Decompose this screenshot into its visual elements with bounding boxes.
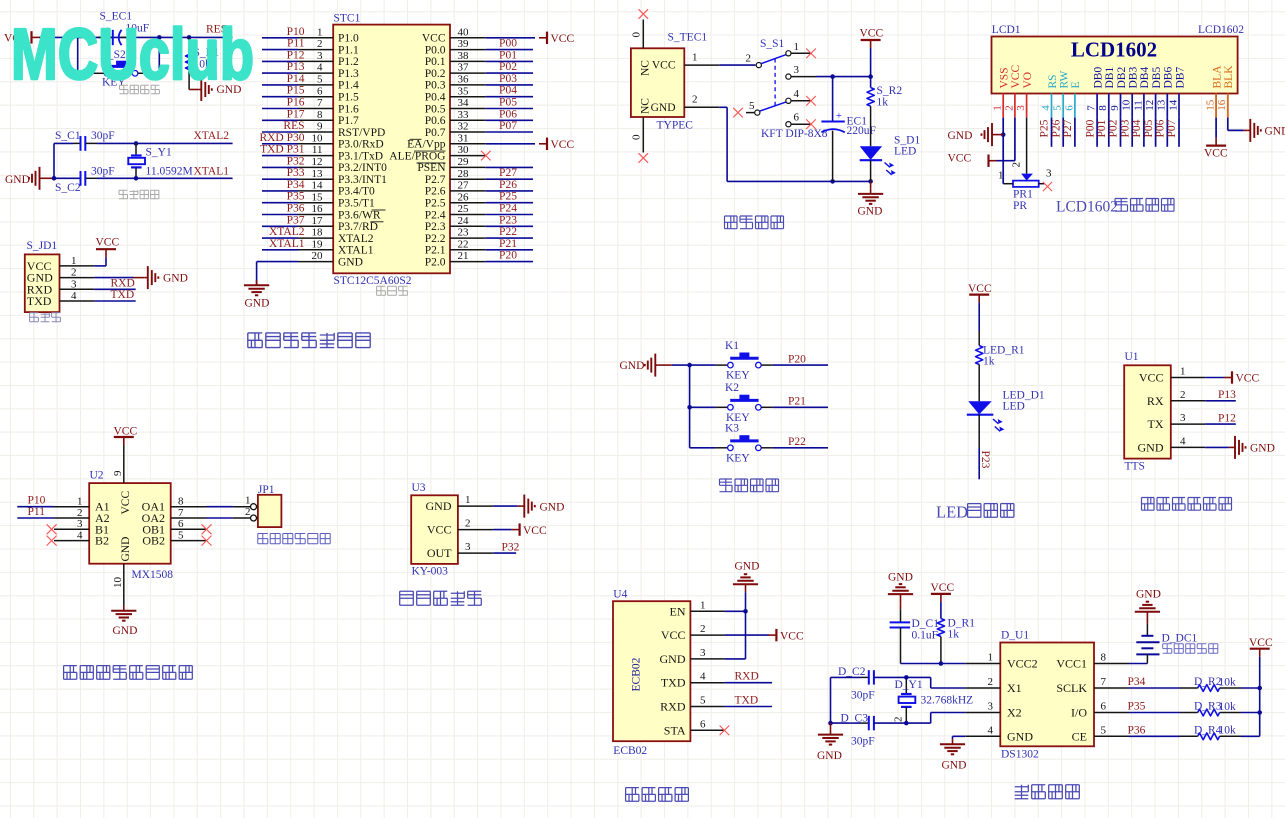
push button K3 KEY — [716, 423, 773, 465]
junction crystal bottom — [134, 176, 139, 181]
U2 pin 2 (A2) — [54, 507, 110, 525]
resistor S_R1 10k — [186, 37, 193, 89]
svg-text:BLA: BLA — [1211, 65, 1223, 89]
svg-text:7: 7 — [1101, 676, 1107, 688]
U3 pin 1 (GND) — [426, 494, 494, 513]
svg-text:VO: VO — [1022, 72, 1034, 89]
svg-text:VCC: VCC — [1236, 373, 1260, 385]
svg-text:P20: P20 — [788, 353, 806, 365]
U2 pin 1 (A1) — [54, 496, 110, 514]
junction VSS/GND — [1001, 132, 1006, 137]
svg-text:VCC: VCC — [1249, 637, 1273, 649]
svg-text:2: 2 — [988, 676, 994, 688]
no-connect X U2 pin5 — [202, 536, 212, 546]
caption 电源电路 — [725, 216, 738, 229]
IC LCD1 LCD1602 body — [992, 24, 1245, 93]
wire U2 pin7 to JP1 pin2 — [207, 517, 233, 519]
svg-text:0.1uF: 0.1uF — [912, 630, 939, 642]
wire/net label TXD (pin5) — [724, 695, 772, 707]
wire/net label P04 — [1131, 118, 1144, 147]
power VCC (D_R1) — [931, 582, 955, 602]
LCD1 pin 12 stub — [1144, 94, 1156, 118]
svg-text:GND: GND — [660, 652, 686, 666]
wire gnd bus to buttons — [672, 365, 716, 448]
svg-text:10k: 10k — [1219, 701, 1237, 713]
svg-text:36: 36 — [458, 74, 470, 86]
caption 直流电机插座 — [258, 534, 268, 544]
wire U3 pin1 to GND — [493, 495, 564, 518]
wire to VCC2 pin — [901, 663, 966, 665]
resistor D_R3 10k — [1180, 701, 1260, 716]
svg-text:GND: GND — [163, 273, 188, 285]
svg-text:2: 2 — [746, 52, 752, 64]
svg-text:2: 2 — [77, 507, 83, 519]
LCD1 pin 15 stub — [1205, 94, 1217, 118]
svg-text:2: 2 — [692, 94, 698, 106]
U2 pin 9 (VCC top) — [112, 445, 124, 483]
svg-text:D_U1: D_U1 — [1001, 630, 1029, 642]
wire/net label P25 — [1039, 118, 1052, 147]
ground (bluetooth) — [733, 561, 760, 593]
svg-text:VCC: VCC — [860, 28, 884, 40]
U4 pin 3 (GND) — [660, 647, 725, 666]
capacitor D_C3 30pF — [831, 716, 907, 730]
LCD1 pin 2 stub — [1003, 94, 1015, 118]
STC1 pin 27 (P2.6) — [425, 180, 486, 198]
svg-text:P00: P00 — [1084, 119, 1096, 137]
capacitor S_C2 30pF — [54, 171, 97, 186]
svg-text:LED: LED — [936, 503, 968, 522]
svg-text:P24: P24 — [499, 203, 517, 215]
svg-text:2: 2 — [893, 717, 905, 723]
svg-text:D_C2: D_C2 — [838, 666, 866, 678]
wire X1 — [906, 677, 965, 688]
svg-text:GND: GND — [1138, 440, 1164, 454]
svg-text:26: 26 — [458, 191, 470, 203]
svg-text:D_C3: D_C3 — [841, 713, 869, 725]
svg-text:1: 1 — [692, 52, 698, 64]
svg-text:RES: RES — [283, 120, 304, 132]
ground (backlight) — [1244, 119, 1285, 142]
STC1 pin 6 (P1.5) — [298, 85, 359, 103]
wire/net label P10 — [17, 495, 54, 507]
svg-text:3: 3 — [465, 541, 471, 553]
wire/net label P07 — [486, 120, 533, 132]
svg-text:40: 40 — [458, 26, 470, 38]
S_JD1 pin 2 (GND) — [27, 267, 95, 285]
svg-text:TYPEC: TYPEC — [657, 120, 694, 132]
STC1 pin 31 (EA/Vpp) — [407, 132, 486, 150]
svg-text:XTAL1: XTAL1 — [194, 166, 230, 178]
wire/net label P26 — [486, 179, 533, 191]
svg-text:P21: P21 — [788, 396, 806, 408]
svg-text:9: 9 — [112, 470, 124, 476]
svg-text:LCD1602: LCD1602 — [1056, 199, 1118, 216]
svg-text:4: 4 — [700, 671, 706, 683]
U1 pin 3 (TX) — [1148, 412, 1206, 431]
svg-text:TX: TX — [1148, 417, 1164, 431]
svg-text:1: 1 — [700, 599, 706, 611]
overbar PSEN — [417, 162, 446, 164]
svg-text:P0.3: P0.3 — [425, 80, 446, 92]
svg-text:MCUclub: MCUclub — [11, 15, 254, 95]
svg-text:GND: GND — [5, 174, 30, 186]
svg-text:XTAL2: XTAL2 — [269, 226, 305, 238]
svg-text:0: 0 — [631, 134, 643, 140]
push button K1 KEY — [716, 340, 773, 382]
wire D_U1 GND pin4 — [953, 736, 966, 739]
svg-text:3: 3 — [1015, 105, 1027, 111]
svg-text:P1.3: P1.3 — [338, 68, 359, 80]
svg-text:LED_D1: LED_D1 — [1003, 390, 1045, 402]
svg-text:P07: P07 — [1166, 119, 1178, 137]
wire U4 pin2 to VCC — [724, 629, 804, 642]
svg-text:1: 1 — [988, 652, 994, 664]
svg-text:ECB02: ECB02 — [631, 657, 643, 691]
svg-text:DB2: DB2 — [1116, 67, 1128, 89]
wire LCD pin16 BLK to GND — [1228, 94, 1244, 131]
caption 按键复位 — [120, 85, 129, 94]
STC1 pin 9 (RST/VPD) — [298, 121, 385, 139]
svg-text:22: 22 — [458, 238, 469, 250]
svg-text:SCLK: SCLK — [1056, 681, 1087, 695]
svg-text:6: 6 — [317, 85, 323, 97]
junction U4 EN — [743, 609, 748, 614]
svg-text:P33: P33 — [287, 167, 305, 179]
svg-text:GND: GND — [113, 625, 138, 637]
wire/net label P02 — [486, 61, 533, 73]
svg-text:B2: B2 — [95, 534, 109, 548]
svg-text:P25: P25 — [499, 191, 517, 203]
svg-text:P02: P02 — [1108, 119, 1120, 137]
caption 纽扣电池座 — [1163, 644, 1172, 654]
svg-text:TXD P31: TXD P31 — [260, 144, 305, 156]
caption 按键电路 — [720, 479, 733, 492]
svg-text:P2.2: P2.2 — [425, 233, 446, 245]
wire/net label XTAL2 — [262, 226, 305, 238]
wire/net label P13 — [262, 61, 305, 73]
svg-text:38: 38 — [458, 50, 470, 62]
junction EC1 top — [830, 74, 835, 79]
svg-text:P01: P01 — [499, 49, 517, 61]
svg-text:S_D1: S_D1 — [894, 135, 920, 147]
S_JD1 pin 1 (VCC) — [27, 255, 95, 273]
svg-text:P34: P34 — [287, 179, 305, 191]
wire/net label P21 — [486, 238, 533, 250]
wire gnd bus (crystal) — [830, 677, 832, 723]
U1 pin 1 (VCC) — [1139, 366, 1205, 385]
push button K2 KEY — [716, 382, 773, 424]
STC1 pin 26 (P2.5) — [425, 191, 486, 209]
svg-text:1: 1 — [794, 41, 800, 53]
STC1 pin 11 (P3.1/TxD) — [298, 144, 383, 162]
svg-text:NC: NC — [640, 60, 652, 76]
svg-text:1k: 1k — [948, 629, 960, 641]
LCD1 pin 8 stub — [1097, 94, 1109, 118]
svg-text:4: 4 — [1180, 435, 1186, 447]
U4 pin 1 (EN) — [670, 599, 725, 618]
D_U1 pin 1 (VCC2) — [965, 652, 1037, 671]
D_U1 pin 2 (X1) — [965, 676, 1021, 695]
caption 时钟电路 — [1015, 785, 1029, 799]
svg-text:ECB02: ECB02 — [613, 745, 647, 757]
svg-text:TXD: TXD — [735, 695, 759, 707]
LCD1 pin 16 stub — [1216, 94, 1228, 118]
svg-text:16: 16 — [312, 203, 324, 215]
wire/net label P27 — [1062, 118, 1075, 147]
wire/net label RES — [262, 120, 305, 132]
wire LCD pin1 VSS down — [1002, 118, 1004, 184]
svg-text:17: 17 — [312, 215, 324, 227]
no-connect X U2 pin4 — [47, 536, 57, 546]
potentiometer PR1 PR — [998, 162, 1052, 187]
caption LED灯电路 — [936, 503, 1014, 522]
wire/net label XTAL1 — [262, 238, 305, 250]
svg-text:DB0: DB0 — [1092, 67, 1104, 89]
ground (DS1302) — [940, 739, 967, 771]
svg-text:P34: P34 — [1128, 676, 1146, 688]
wire/net label P13 — [1205, 389, 1236, 401]
svg-text:P0.2: P0.2 — [425, 68, 446, 80]
svg-text:GND: GND — [651, 102, 676, 114]
svg-text:VCC: VCC — [948, 153, 972, 165]
ground (download port) — [134, 266, 188, 289]
svg-text:S_TEC1: S_TEC1 — [668, 32, 708, 44]
svg-text:2: 2 — [1180, 389, 1186, 401]
svg-text:1: 1 — [77, 496, 83, 508]
junction LED bottom — [868, 179, 873, 184]
svg-text:2: 2 — [71, 267, 77, 279]
diode S_D1 LED — [860, 146, 896, 181]
no-connect X switch pin4 — [806, 96, 816, 106]
svg-text:VCC: VCC — [1139, 371, 1164, 385]
LCD1 pin 1 stub — [992, 94, 1004, 118]
connector S_JD1 body — [25, 240, 60, 312]
svg-text:12: 12 — [1144, 100, 1156, 111]
svg-text:P01: P01 — [1096, 119, 1108, 137]
ground (reset circuit) — [198, 78, 241, 101]
wire/net label P03 — [1119, 118, 1132, 147]
wire/net label P00 — [1084, 118, 1097, 147]
STC1 pin 35 (P0.4) — [425, 85, 486, 103]
junction key bus 2 — [687, 405, 692, 410]
IC STC1 STC12C5A60S2 body — [333, 13, 450, 288]
wire/net label P25 — [486, 191, 533, 203]
svg-text:P12: P12 — [1218, 412, 1236, 424]
junction (switch right leg) — [157, 35, 162, 40]
overbar P3.6/WR — [372, 209, 386, 211]
svg-text:P3.0/RxD: P3.0/RxD — [338, 139, 384, 151]
LCD1 pin 3 stub — [1015, 94, 1027, 118]
LCD1 pin 11 stub — [1132, 94, 1144, 118]
wire net XTAL2 — [97, 142, 233, 144]
svg-text:GND: GND — [1250, 443, 1275, 455]
STC1 pin 20 (GND) — [298, 250, 363, 268]
svg-text:P1.6: P1.6 — [338, 103, 359, 115]
wire/net label P06 — [1155, 118, 1168, 147]
no-connect X bottom — [639, 153, 649, 163]
wire/net label P10 — [262, 26, 305, 38]
caption 单片机 — [377, 286, 386, 295]
wire pin29 PSEN stub — [486, 166, 533, 168]
wire net RES horizontal — [40, 36, 233, 38]
wire/net label P02 — [1108, 118, 1121, 147]
svg-text:11: 11 — [312, 144, 323, 156]
wire/net label P06 — [486, 108, 533, 120]
wire/net label P32 — [493, 541, 519, 553]
caption LCD1602显示电路 — [1056, 199, 1174, 216]
module U1 TTS body — [1124, 351, 1171, 473]
svg-text:VSS: VSS — [999, 67, 1011, 88]
S_JD1 pin 3 (RXD) — [27, 278, 95, 296]
svg-text:P1.5: P1.5 — [338, 92, 359, 104]
STC1 pin 38 (P0.1) — [425, 50, 486, 68]
svg-text:6: 6 — [794, 112, 800, 124]
svg-text:30pF: 30pF — [91, 130, 115, 142]
svg-text:P11: P11 — [28, 506, 46, 518]
svg-text:1: 1 — [992, 105, 1004, 111]
D_U1 pin 7 (SCLK) — [1056, 676, 1129, 695]
svg-text:LCD1602: LCD1602 — [1198, 24, 1244, 36]
svg-text:29: 29 — [458, 156, 470, 168]
svg-text:STC1: STC1 — [334, 13, 361, 25]
svg-text:P32: P32 — [502, 541, 520, 553]
STC1 pin 19 (XTAL1) — [298, 238, 374, 256]
IC D_U1 DS1302 body — [1000, 630, 1094, 761]
svg-text:GND: GND — [942, 760, 967, 772]
wire/net label P04 — [486, 85, 533, 97]
STC1 pin 22 (P2.1) — [425, 238, 486, 256]
wire net P23 vertical — [978, 448, 980, 479]
svg-text:LED: LED — [894, 146, 916, 158]
svg-text:VCC: VCC — [661, 628, 686, 642]
LCD1 pin 4 stub — [1040, 94, 1052, 118]
svg-text:13: 13 — [312, 168, 324, 180]
svg-text:DB7: DB7 — [1174, 67, 1186, 89]
STC1 pin 23 (P2.2) — [425, 227, 486, 245]
U2 pin 6 (OB1) — [142, 518, 206, 536]
svg-text:P1.0: P1.0 — [338, 33, 359, 45]
wire/net label P34 — [262, 179, 305, 191]
svg-text:P13: P13 — [1218, 389, 1236, 401]
wire/net label P00 — [486, 38, 533, 50]
svg-text:VCC: VCC — [551, 33, 575, 45]
power VCC (LCD) — [948, 153, 997, 167]
svg-text:33: 33 — [458, 109, 470, 121]
D_U1 pin 5 (CE) — [1072, 724, 1129, 743]
LCD1 pin 9 stub — [1109, 94, 1121, 118]
S_TEC1 pin 2 (GND) — [651, 94, 720, 114]
junction crystal top — [134, 141, 139, 146]
svg-text:P13: P13 — [287, 61, 305, 73]
S_TEC1 pin 1 (VCC) — [652, 52, 719, 72]
svg-text:6: 6 — [178, 518, 184, 530]
ground (MCU) — [244, 280, 269, 309]
svg-text:VCC1: VCC1 — [1056, 657, 1087, 671]
svg-text:3: 3 — [71, 278, 77, 290]
svg-text:P05: P05 — [1143, 119, 1155, 137]
wire/net label RXD P30 — [259, 132, 304, 144]
svg-text:P02: P02 — [499, 61, 517, 73]
module U4 ECB02 body — [613, 589, 690, 758]
U2 pin 3 (B1) — [54, 518, 109, 536]
wire/net label P33 — [262, 167, 305, 179]
svg-text:8: 8 — [178, 496, 184, 508]
svg-text:TXD: TXD — [661, 676, 686, 690]
svg-text:P1.7: P1.7 — [338, 115, 359, 127]
svg-text:1: 1 — [317, 26, 323, 38]
svg-text:5: 5 — [1052, 105, 1064, 111]
STC1 pin 10 (P3.0/RxD) — [298, 132, 384, 150]
U4 pin 5 (RXD) — [660, 695, 724, 714]
no-connect X U2 pin3 — [47, 524, 57, 534]
resistor LED_R1 1k — [976, 331, 983, 401]
wire net RXD — [94, 288, 135, 290]
svg-text:34: 34 — [458, 97, 470, 109]
svg-text:10: 10 — [312, 132, 324, 144]
D_U1 pin 4 (GND) — [965, 724, 1033, 743]
svg-text:10k: 10k — [1219, 676, 1237, 688]
svg-text:K3: K3 — [725, 423, 739, 435]
wire X2 — [906, 713, 965, 724]
svg-text:TXD: TXD — [111, 289, 135, 301]
svg-text:30pF: 30pF — [851, 690, 875, 702]
wire LCD pin3 VO to potentiometer wiper — [1026, 118, 1028, 174]
svg-text:14: 14 — [1167, 99, 1179, 111]
wire LCD pin15 BLA to VCC — [1215, 94, 1217, 138]
svg-text:RXD P30: RXD P30 — [259, 132, 304, 144]
svg-text:8: 8 — [1101, 652, 1107, 664]
wire/net label P12 — [1205, 412, 1236, 424]
ground (motor driver) — [111, 606, 137, 638]
svg-text:U2: U2 — [90, 470, 104, 482]
svg-text:P03: P03 — [499, 73, 517, 85]
svg-text:VCC: VCC — [427, 523, 452, 537]
svg-text:P3.3/INT1: P3.3/INT1 — [338, 174, 387, 186]
svg-text:X1: X1 — [1007, 681, 1022, 695]
U4 pin 2 (VCC) — [661, 623, 725, 642]
svg-text:RW: RW — [1059, 70, 1071, 88]
wire/net label P37 — [262, 214, 305, 226]
wire/net label P17 — [262, 108, 305, 120]
svg-text:GND: GND — [888, 572, 913, 584]
svg-text:P2.5: P2.5 — [425, 198, 446, 210]
wire/net label P05 — [1143, 118, 1156, 147]
svg-text:P10: P10 — [287, 26, 305, 38]
svg-text:31: 31 — [458, 132, 469, 144]
ground (power circuit) — [858, 181, 884, 217]
overbar P3.7/RD — [371, 221, 384, 223]
power VCC (motor driver) — [114, 426, 138, 446]
wire/net label P24 — [486, 203, 533, 215]
svg-text:PR: PR — [1013, 200, 1027, 212]
wire/net label P01 — [1096, 118, 1109, 147]
svg-text:S_R2: S_R2 — [877, 85, 903, 97]
wire gnd to EN/GND pins — [724, 592, 745, 659]
svg-text:P05: P05 — [499, 97, 517, 109]
wire TEC1 pin2 gnd rail — [719, 107, 870, 181]
svg-text:P3.1/TxD: P3.1/TxD — [338, 150, 383, 162]
svg-text:P35: P35 — [287, 191, 305, 203]
svg-text:2: 2 — [1011, 162, 1023, 168]
svg-text:P07: P07 — [499, 120, 517, 132]
svg-text:16: 16 — [1216, 99, 1228, 111]
svg-text:P0.1: P0.1 — [425, 56, 446, 68]
svg-text:P04: P04 — [1131, 119, 1143, 137]
module U3 KY-003 body — [411, 482, 458, 578]
svg-text:30pF: 30pF — [91, 166, 115, 178]
svg-text:P3.7/RD: P3.7/RD — [338, 221, 378, 233]
